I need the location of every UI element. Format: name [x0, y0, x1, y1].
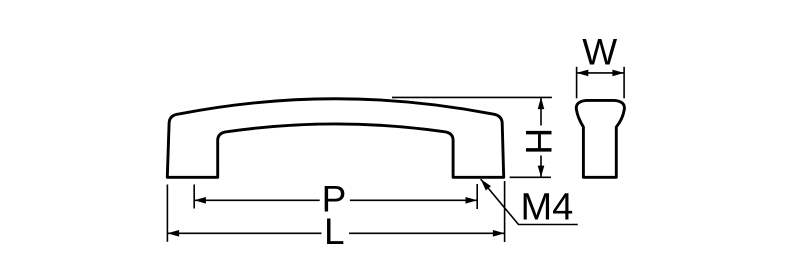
H dimension line lower [540, 156, 542, 178]
H arrow down [538, 166, 545, 178]
P arrow right [466, 197, 478, 204]
H dimension [392, 97, 552, 177]
P dimension line right segment [350, 199, 477, 201]
handle front view outline [167, 99, 503, 178]
extension line top of H [392, 96, 552, 98]
P dimension line left segment [194, 199, 320, 201]
extension line right of L [504, 181, 506, 242]
svg-text:L: L [324, 211, 345, 252]
extension line right of P [476, 184, 478, 209]
L dimension line left segment [167, 232, 321, 234]
W dimension [577, 67, 625, 99]
extension line left of L [166, 185, 168, 242]
W arrow left [577, 70, 589, 77]
L dimension line right segment [349, 232, 505, 234]
H arrow up [538, 97, 545, 109]
H dimension line upper [540, 97, 542, 125]
extension line right of W [623, 67, 625, 99]
svg-text:W: W [582, 31, 617, 72]
svg-text:M4: M4 [521, 187, 574, 229]
M4 leader arrow [481, 179, 491, 190]
P arrow left [194, 197, 206, 204]
P dimension [194, 184, 477, 209]
extension line bottom of H [510, 176, 551, 178]
L arrow left [167, 230, 179, 237]
extension line left of P [193, 185, 195, 209]
L arrow right [493, 230, 505, 237]
extension line left of W [576, 67, 578, 99]
W arrow right [612, 70, 624, 77]
svg-text:H: H [518, 128, 559, 155]
W dimension line [577, 72, 625, 74]
handle side view outline [576, 100, 624, 177]
L dimension [167, 181, 504, 242]
M4 leader line [481, 179, 578, 224]
